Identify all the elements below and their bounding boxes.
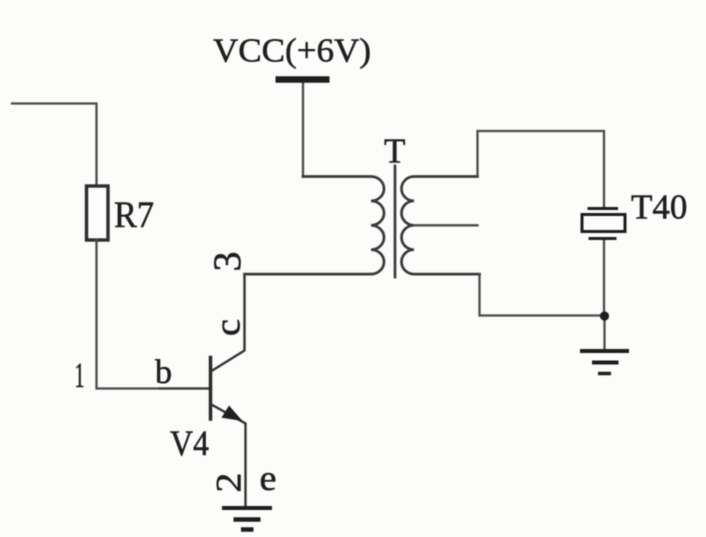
- svg-text:1: 1: [75, 355, 85, 395]
- svg-text:V4: V4: [170, 423, 209, 463]
- svg-text:VCC(+6V): VCC(+6V): [213, 33, 371, 70]
- svg-text:R7: R7: [114, 195, 154, 236]
- svg-text:2: 2: [208, 473, 248, 493]
- svg-text:b: b: [155, 354, 172, 391]
- svg-text:c: c: [207, 319, 247, 336]
- svg-text:T: T: [384, 132, 405, 171]
- svg-text:e: e: [260, 458, 277, 498]
- svg-text:T40: T40: [631, 188, 687, 227]
- svg-text:3: 3: [206, 252, 249, 272]
